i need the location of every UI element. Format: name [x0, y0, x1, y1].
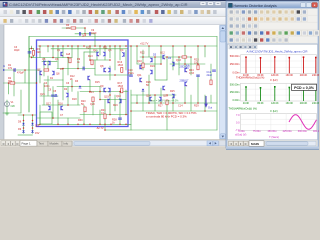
transistor Q25 — [185, 68, 187, 72]
wire v60 — [166, 100, 168, 130]
wire bus E — [42, 104, 80, 106]
svg-text:R22: R22 — [140, 52, 145, 55]
toolbar2 icon 1 — [3, 19, 6, 23]
svg-text:F (Hz): F (Hz) — [270, 109, 277, 113]
transistor Q26 — [185, 82, 187, 86]
wire feedback line — [4, 82, 37, 84]
toolbar2 icon 15 — [101, 19, 104, 23]
chart 1 THD stems — [245, 57, 247, 73]
wire bus N — [100, 99, 126, 101]
wire bus H — [84, 51, 97, 53]
wire bus L — [170, 63, 205, 65]
resistor RV11 — [166, 100, 168, 105]
chart 3 frame — [241, 114, 317, 131]
resistor RV1 — [121, 68, 123, 73]
transistor Q3 — [103, 52, 105, 56]
wire v52 — [142, 90, 144, 111]
wire v27 — [94, 34, 96, 46]
wire v36 — [104, 46, 106, 60]
wire driver bus — [131, 94, 176, 96]
wire v15 — [57, 100, 59, 124]
output sine waveform — [289, 115, 317, 130]
svg-text:R13: R13 — [88, 55, 93, 58]
analysis window bottom border — [226, 147, 319, 149]
wire v13 — [52, 87, 54, 119]
ground — [5, 112, 9, 114]
tab nav button 3 — [11, 141, 16, 146]
wire V- rail — [38, 123, 131, 125]
wire v59 — [166, 57, 168, 80]
main toolbar row 1 — [0, 8, 226, 17]
diode D4 — [31, 130, 33, 132]
svg-text:Vout = 28.3 V max +4.0%: Vout = 28.3 V max +4.0% — [150, 99, 179, 102]
wire v69 — [197, 75, 199, 103]
chart 2 frame — [241, 83, 317, 101]
wire v72 — [210, 64, 212, 80]
wire v75 — [8, 83, 10, 94]
svg-text:R27: R27 — [158, 105, 163, 108]
svg-text:Q21: Q21 — [40, 93, 45, 96]
wire v83 — [32, 115, 34, 134]
svg-text:Models: Models — [50, 142, 60, 146]
wire v8 — [39, 105, 41, 124]
toolbar2 icon 20 — [136, 19, 139, 23]
toolbar2 icon 18 — [123, 19, 126, 23]
toolbar1 icon 9 — [56, 10, 60, 14]
page border green — [29, 36, 217, 38]
wire v10 — [47, 46, 49, 52]
svg-text:4a8: 4a8 — [66, 53, 71, 56]
toolbar1 icon 4 — [22, 10, 26, 14]
svg-text:C:\MC12\DV\TN\Petrov\HeadAMP\K: C:\MC12\DV\TN\Petrov\HeadAMP\K23F\JD2_He… — [9, 2, 188, 7]
wire v5 — [31, 57, 33, 58]
toolbar1 icon 7 — [43, 10, 47, 14]
diode D5 — [79, 86, 81, 88]
svg-text:R25: R25 — [170, 90, 175, 93]
transistor Q2 — [97, 52, 99, 56]
svg-text:R30: R30 — [78, 119, 83, 122]
toolbar1 icon 5 — [29, 10, 33, 14]
toolbar1 icon 31 — [201, 10, 205, 14]
wire V+ rail — [38, 45, 217, 47]
analysis nav button 4 — [244, 141, 249, 146]
resistor RV3 — [84, 107, 86, 112]
wire v34 — [99, 87, 101, 100]
chart 2 PCD stems — [245, 87, 247, 101]
svg-text:R29: R29 — [194, 105, 199, 108]
wire bus D — [80, 91, 128, 93]
svg-text:R18: R18 — [72, 98, 77, 101]
tab Text — [37, 141, 48, 146]
resistor RV5 — [69, 58, 71, 63]
wire v71 — [204, 95, 206, 111]
svg-text:C14: C14 — [178, 105, 183, 108]
main window top edge — [0, 0, 319, 1]
svg-text:A:\MC12\DV\TN\JD2_Hecht_2Whfp_: A:\MC12\DV\TN\JD2_Hecht_2Whfp_apexx.CIR — [247, 49, 308, 53]
svg-text:R19: R19 — [150, 65, 155, 68]
svg-text:R14: R14 — [89, 91, 94, 94]
block border blue — [37, 40, 129, 127]
wire v78 — [43, 83, 45, 105]
wire v6 — [39, 46, 41, 58]
Micro-Cap app icon — [3, 2, 7, 6]
capacitor C8 — [213, 69, 216, 71]
capacitor C2 — [89, 32, 91, 35]
wire top res line — [62, 27, 85, 29]
wire rc top — [30, 48, 34, 50]
diode D3 — [22, 130, 24, 132]
wire v25 — [84, 28, 86, 34]
wire v37 — [104, 100, 106, 131]
resistor RV7 — [91, 60, 93, 65]
main title bar — [0, 1, 226, 8]
toolbar1 icon 14 — [89, 10, 93, 14]
svg-text:v(Out) (V): v(Out) (V) — [235, 132, 247, 136]
transistor Q18 — [140, 78, 142, 82]
toolbar2 icon 19 — [129, 19, 132, 23]
svg-text:2SB817: 2SB817 — [180, 80, 190, 83]
resistor RV6 — [32, 50, 34, 55]
svg-text:R10: R10 — [86, 47, 91, 50]
capacitor C10 — [52, 94, 55, 96]
svg-text:Text: Text — [39, 142, 44, 146]
transistor Q6 — [48, 61, 50, 65]
capacitor C7 — [197, 74, 200, 76]
toolbar2 icon 12 — [80, 19, 83, 23]
svg-text:Out: Out — [208, 107, 212, 110]
analysis window frame — [226, 1, 319, 148]
wire v48 — [130, 90, 132, 130]
transistor Q24 — [172, 94, 174, 98]
toolbar2 icon 17 — [114, 19, 117, 23]
wire bus P — [40, 95, 58, 97]
wire bus F — [80, 114, 128, 116]
svg-text:160.0K: 160.0K — [286, 74, 294, 77]
main window background — [0, 0, 319, 150]
svg-text:500.00m: 500.00m — [230, 55, 240, 58]
main toolbar row 2 — [0, 17, 226, 25]
toolbar1 icon 6 — [37, 10, 41, 14]
wire bus I — [90, 59, 110, 61]
resistor RV8 — [142, 63, 144, 68]
analysis tab bar — [228, 140, 318, 146]
input arrow — [3, 69, 5, 71]
transistor Q27 — [150, 97, 152, 101]
transistor Q22 — [163, 86, 165, 90]
wire v70 — [204, 46, 206, 57]
wire v11 — [47, 61, 49, 70]
wire loop rect — [40, 112, 52, 124]
capacitor C6 — [130, 74, 133, 76]
wire v62 — [172, 96, 174, 111]
wire v68 — [197, 46, 199, 64]
svg-text:150.00u: 150.00u — [267, 130, 277, 133]
wire v73 — [210, 95, 212, 103]
svg-text:150: 150 — [194, 61, 199, 64]
wire v77 — [36, 70, 38, 83]
toolbar1 icon 26 — [167, 10, 171, 14]
wire v51 — [142, 50, 144, 70]
main window caption buttons — [200, 2, 206, 6]
transistor Q28 — [159, 97, 161, 101]
analysis toolbar row 4 — [228, 29, 318, 36]
wire v54 — [148, 75, 150, 103]
transistor Q4 — [122, 52, 124, 56]
toolbar1 icon 13 — [82, 10, 86, 14]
wire v63 — [178, 57, 180, 75]
analysis h scrollbar — [265, 141, 316, 146]
tab nav button 4 — [15, 141, 20, 146]
toolbar1 icon 19 — [122, 10, 126, 14]
wire v85 — [20, 90, 22, 113]
transistor Q17 — [140, 65, 142, 69]
resistor RH2 — [44, 69, 49, 71]
wire v53 — [148, 46, 150, 57]
resistor RH1 — [10, 82, 15, 84]
toolbar1 icon 18 — [115, 10, 119, 14]
horizontal scrollbar — [73, 141, 212, 146]
svg-text:R19: R19 — [113, 104, 118, 107]
toolbar2 icon 11 — [73, 19, 76, 23]
toolbar1 icon 21 — [134, 10, 138, 14]
resistor RH3 — [71, 27, 76, 29]
wire v14 — [57, 46, 59, 69]
svg-text:PCD = 0,3%: PCD = 0,3% — [294, 86, 315, 90]
analysis caption buttons — [301, 3, 306, 8]
wire v24 — [77, 92, 79, 106]
svg-text:R11: R11 — [103, 47, 108, 50]
page border green right — [216, 37, 218, 131]
wire v40 — [109, 90, 111, 115]
wire stub Q — [44, 79, 63, 81]
toolbar1 icon 23 — [147, 10, 151, 14]
wire v50 — [136, 95, 138, 103]
analysis nav button 3 — [239, 141, 244, 146]
wire v1 — [28, 37, 30, 113]
toolbar2 icon 3 — [18, 19, 21, 23]
resistor RV2 — [121, 88, 123, 93]
svg-text:470pF: 470pF — [17, 72, 25, 75]
diode D7 — [142, 89, 144, 91]
wire v39 — [109, 66, 111, 80]
wire v4 — [31, 46, 33, 49]
svg-text:120.0K: 120.0K — [271, 102, 279, 105]
toolbar1 icon 30 — [194, 10, 198, 14]
wire v3 — [33, 49, 35, 58]
wire v33 — [99, 46, 101, 55]
toolbar1 icon 8 — [49, 10, 53, 14]
wire v12 — [52, 46, 54, 58]
diode D2 — [31, 123, 33, 125]
transistor Q5 — [44, 61, 46, 65]
svg-text:300.00u: 300.00u — [298, 130, 308, 133]
output probe arrow — [204, 97, 208, 108]
toolbar1 icon 12 — [76, 10, 80, 14]
transistor Q7 — [40, 71, 42, 75]
svg-text:Q19: Q19 — [104, 96, 109, 99]
tab nav button 2 — [6, 141, 11, 146]
toolbar1 icon 20 — [128, 10, 132, 14]
tab MAIN — [249, 141, 264, 146]
wire v21 — [71, 46, 73, 58]
toolbar1 icon 17 — [108, 10, 112, 14]
svg-text:THD(HARM(v(Out))) (%): THD(HARM(v(Out))) (%) — [229, 107, 258, 111]
svg-text:0.00m: 0.00m — [233, 99, 240, 102]
wire bus K — [95, 74, 131, 76]
wire v19 — [67, 87, 69, 106]
svg-text:R15: R15 — [95, 81, 100, 84]
main tab bar — [0, 140, 226, 147]
svg-text:40.0K: 40.0K — [243, 102, 250, 105]
svg-text:Q17: Q17 — [46, 103, 51, 106]
page border green left — [28, 37, 30, 113]
svg-text:6k8: 6k8 — [37, 51, 42, 54]
toolbar1 icon 25 — [161, 10, 165, 14]
capacitor C5 — [82, 67, 84, 70]
page border green bottom — [105, 129, 217, 131]
wire v79 — [47, 76, 49, 96]
svg-text:120.0K: 120.0K — [271, 74, 279, 77]
svg-text:Q16: Q16 — [58, 103, 63, 106]
wire v22 — [71, 80, 73, 92]
wire v38 — [109, 46, 111, 58]
toolbar2 icon 6 — [38, 19, 41, 23]
toolbar1 icon 3 — [16, 10, 20, 14]
analysis title bar — [228, 2, 318, 9]
toolbar1 icon 22 — [141, 10, 145, 14]
PCD value box — [292, 84, 317, 90]
toolbar1 icon 32 — [207, 10, 211, 14]
svg-text:Info: Info — [64, 142, 69, 146]
svg-text:+52.7V: +52.7V — [140, 42, 149, 46]
svg-text:0.0: 0.0 — [236, 121, 240, 124]
wire v76 — [24, 70, 26, 83]
svg-text:-52.7V: -52.7V — [96, 126, 104, 130]
svg-text:2p4: 2p4 — [82, 35, 87, 38]
svg-text:80.0K: 80.0K — [257, 102, 264, 105]
wire v2 — [29, 49, 31, 58]
wire v41 — [114, 46, 116, 70]
toolbar1 icon 28 — [180, 10, 184, 14]
analysis toolbar row 3 — [228, 22, 318, 29]
wire out node — [131, 110, 217, 112]
main vertical scrollbar — [220, 25, 227, 140]
analysis toolbar row 2 — [228, 15, 318, 22]
svg-text:200.0K: 200.0K — [300, 74, 308, 77]
diode D1 — [22, 123, 24, 125]
toolbar1 icon 10 — [62, 10, 66, 14]
wire v57 — [160, 46, 162, 64]
svg-text:250.00m: 250.00m — [230, 91, 240, 94]
analysis nav button 2 — [234, 141, 239, 146]
wire v46 — [125, 90, 127, 115]
wire v82 — [23, 115, 25, 134]
wire v23 — [77, 46, 79, 69]
capacitor C9 — [119, 117, 122, 119]
svg-text:46pF: 46pF — [14, 49, 20, 52]
tab nav button 1 — [1, 141, 6, 146]
svg-text:Q18: Q18 — [116, 95, 121, 98]
toolbar2 icon 22 — [149, 19, 152, 23]
wire v58 — [160, 88, 162, 103]
svg-text:1503: 1503 — [118, 64, 124, 67]
toolbar1 icon 1 — [4, 10, 8, 14]
wire v31 — [94, 60, 96, 75]
toolbar2 icon 7 — [45, 19, 48, 23]
svg-text:0.00m: 0.00m — [233, 72, 240, 75]
toolbar2 icon 8 — [53, 19, 56, 23]
svg-text:22uF: 22uF — [207, 74, 213, 77]
wire v64 — [184, 46, 186, 70]
wire v67 — [190, 95, 192, 111]
page tab Page 1 — [20, 141, 37, 147]
wire v61 — [172, 46, 174, 70]
tab Info — [62, 141, 72, 146]
toolbar2 icon 21 — [143, 19, 146, 23]
transistor Q8 — [52, 71, 54, 75]
wire bus J — [137, 63, 161, 65]
svg-text:160.0K: 160.0K — [286, 102, 294, 105]
capacitor C3 — [13, 69, 15, 72]
svg-text:T (Secs): T (Secs) — [269, 135, 279, 139]
svg-text:a nominala 80 kHz PCD = 0.3%: a nominala 80 kHz PCD = 0.3% — [146, 115, 187, 119]
transistor Q10 — [48, 106, 50, 110]
resistor RV9 — [197, 65, 199, 70]
wire v18 — [67, 58, 69, 76]
svg-text:200.0K: 200.0K — [300, 102, 308, 105]
toolbar2 icon 10 — [66, 19, 69, 23]
chart 1 frame — [241, 55, 317, 74]
wire v28 — [83, 105, 85, 124]
toolbar2 icon 4 — [25, 19, 28, 23]
svg-text:0dB: 0dB — [11, 105, 16, 108]
svg-text:15V: 15V — [35, 132, 40, 135]
transistor Q16 — [108, 99, 110, 103]
analysis toolbar row 1 — [228, 8, 318, 15]
wire v44 — [119, 92, 121, 125]
source V1 — [5, 102, 10, 107]
svg-text:THD(HARM(v(Out))) (%): THD(HARM(v(Out))) (%) — [236, 76, 265, 80]
transistor Q20 — [150, 70, 152, 74]
wire v20 — [67, 118, 69, 124]
wire v81 — [92, 100, 94, 115]
toolbar1 icon 27 — [174, 10, 178, 14]
toolbar2 icon 16 — [108, 19, 111, 23]
wire bus C — [57, 86, 100, 88]
svg-text:Q10: Q10 — [137, 60, 142, 63]
wire bus A — [32, 57, 73, 59]
svg-text:P22u: P22u — [128, 72, 134, 75]
svg-text:F (Hz): F (Hz) — [270, 78, 277, 82]
wire v32 — [96, 50, 98, 60]
toolbar2 icon 14 — [95, 19, 98, 23]
wire v17 — [62, 69, 64, 81]
svg-text:15V: 15V — [35, 125, 40, 128]
toolbar1 icon 29 — [188, 10, 192, 14]
svg-text:Page 1: Page 1 — [22, 142, 32, 146]
svg-text:225.00u: 225.00u — [283, 130, 293, 133]
svg-text:1503: 1503 — [118, 85, 124, 88]
svg-text:Q13: Q13 — [176, 59, 181, 62]
svg-text:Q12: Q12 — [160, 52, 165, 55]
wire v43 — [119, 46, 121, 60]
toolbar1 icon 2 — [10, 10, 14, 14]
capacitor C1 — [79, 32, 81, 35]
svg-text:240.0K: 240.0K — [312, 74, 319, 77]
svg-text:Q11: Q11 — [137, 74, 142, 77]
transistor Q23 — [172, 62, 174, 66]
toolbar1 icon 24 — [155, 10, 159, 14]
